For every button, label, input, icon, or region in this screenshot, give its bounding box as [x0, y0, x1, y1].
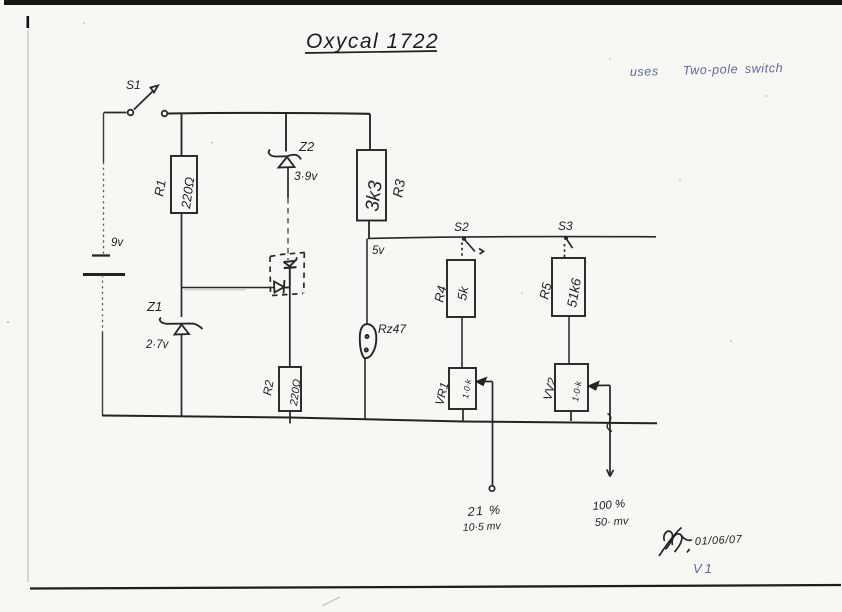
svg-text:S2: S2	[454, 220, 469, 234]
svg-text:Oxycal 1722: Oxycal 1722	[306, 30, 439, 53]
scanner bottom edge line	[30, 585, 841, 589]
wire VR1 to bottom bus	[462, 409, 464, 422]
wire left rail upper	[103, 113, 105, 163]
potentiometer VR2 box	[555, 364, 588, 411]
signature JH	[659, 528, 692, 557]
wire rail to R1	[181, 114, 183, 157]
svg-text:2·7v: 2·7v	[145, 339, 170, 351]
wire rail to Z2	[285, 114, 287, 152]
resistor R4 box	[447, 260, 475, 317]
svg-text:V1: V1	[693, 561, 715, 576]
title underline	[305, 51, 437, 53]
svg-text:21 %: 21 %	[466, 503, 502, 519]
svg-text:S1: S1	[126, 78, 141, 92]
svg-text:5v: 5v	[372, 245, 385, 257]
svg-text:R3: R3	[389, 178, 408, 199]
wiper arrow of VR2	[589, 382, 613, 477]
page left edge faint line	[27, 30, 29, 582]
device K1 dashed outline	[270, 253, 305, 297]
wire node A to Z1	[181, 288, 183, 317]
wire VR2 to bottom bus	[570, 411, 572, 421]
wire Z2 to K1 dotted	[287, 198, 289, 260]
resistor R1 box	[171, 156, 197, 213]
svg-text:R2: R2	[260, 379, 277, 397]
switch S1	[128, 86, 168, 117]
potentiometer VR1 box	[449, 368, 476, 409]
wire R1 to node A	[181, 213, 183, 288]
resistor R3 box	[357, 150, 386, 221]
wire R3 to node 5v	[368, 221, 370, 239]
scanner top black bar	[4, 0, 842, 5]
faint specks	[7, 22, 767, 342]
svg-text:3k3: 3k3	[362, 179, 387, 212]
meter RZ47	[360, 324, 377, 358]
zener Z2	[269, 150, 301, 168]
wire R2 to bottom bus	[289, 411, 291, 424]
battery B1	[83, 256, 125, 275]
wire top rail S1 to R3 corner	[168, 112, 371, 115]
switch S3	[565, 237, 573, 258]
bottom bus wire	[102, 416, 657, 424]
wire node A to K1 input	[182, 287, 275, 289]
switch S2	[462, 237, 484, 258]
wire sketch double stroke	[184, 289, 246, 291]
wire meter to bottom bus	[364, 358, 366, 420]
resistor R5 box	[552, 258, 585, 316]
wire R4 to VR1	[461, 317, 463, 368]
faint diagonal mark bottom	[322, 597, 340, 606]
diode D1 inside K1	[284, 257, 297, 287]
wire left rail lower dotted	[102, 275, 104, 332]
page left edge tick	[27, 16, 30, 28]
wire left to S1	[104, 112, 127, 114]
title Oxycal 1722	[306, 30, 439, 53]
zener Z1	[160, 318, 203, 335]
wire top rail corner down to R3	[369, 114, 371, 150]
svg-text:Z2: Z2	[298, 139, 315, 154]
wire left rail lower	[102, 332, 104, 416]
svg-text:01/06/07: 01/06/07	[695, 534, 743, 548]
wire K1 to R2	[289, 287, 291, 367]
resistor R2 box	[279, 367, 301, 411]
svg-text:Rz47: Rz47	[378, 322, 407, 336]
svg-text:R1: R1	[151, 179, 169, 198]
svg-text:9v: 9v	[111, 237, 124, 249]
svg-text:Z1: Z1	[146, 299, 162, 314]
wire R5 to VR2	[568, 316, 570, 364]
wire 5v node down to meter	[366, 239, 368, 326]
svg-text:S3: S3	[558, 219, 573, 233]
wiper arrow of VR1	[477, 378, 495, 491]
svg-text:50· mv: 50· mv	[595, 515, 631, 529]
wire Z2 anode lead	[287, 168, 289, 199]
wire top bus 5v to right	[368, 237, 656, 239]
wire Z1 to bottom bus	[181, 335, 183, 417]
wire left rail dotted part	[103, 162, 105, 254]
svg-text:10·5 mv: 10·5 mv	[463, 520, 502, 534]
svg-text:3·9v: 3·9v	[294, 169, 318, 183]
diode D2 input of K1	[274, 280, 290, 294]
